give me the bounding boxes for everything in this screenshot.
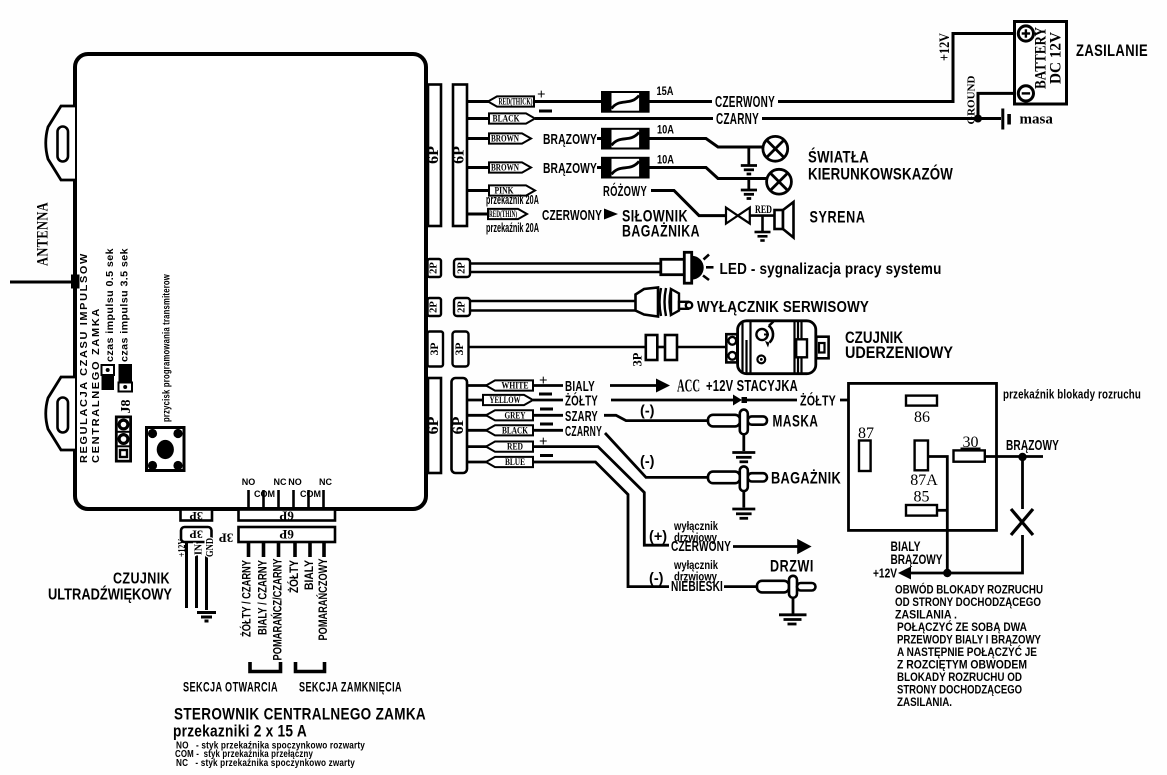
svg-text:LED - sygnalizacja pracy syste: LED - sygnalizacja pracy systemu bbox=[720, 261, 942, 278]
maska switch bbox=[708, 410, 767, 435]
lock wire 6 stub bbox=[322, 542, 326, 557]
svg-text:DRZWI: DRZWI bbox=[770, 557, 814, 576]
svg-text:CENTRALNEGO ZAMKA: CENTRALNEGO ZAMKA bbox=[90, 307, 102, 463]
bracket sekcja otwarcia bbox=[250, 662, 281, 672]
wire BLUE to niebieski bbox=[533, 462, 669, 587]
connector 2P row2 attached bbox=[428, 298, 442, 316]
antenna connector block bbox=[71, 275, 80, 289]
battery plus terminal bbox=[1018, 26, 1033, 41]
svg-text:BLACK: BLACK bbox=[493, 114, 520, 124]
mounting ear top bbox=[46, 106, 75, 180]
wire to CZARNY bbox=[535, 117, 713, 120]
svg-text:NC: NC bbox=[274, 477, 287, 487]
minus sign GREY bbox=[540, 408, 553, 411]
svg-text:przekaźnik 20A: przekaźnik 20A bbox=[486, 193, 539, 207]
ground siren bbox=[755, 216, 771, 241]
svg-text:SYRENA: SYRENA bbox=[810, 208, 866, 227]
relay box blokady bbox=[849, 383, 997, 530]
svg-text:MASKA: MASKA bbox=[773, 412, 819, 431]
fuse 10A-1 bbox=[602, 129, 649, 149]
wire X to +12V line bbox=[911, 535, 1023, 573]
svg-text:BRĄZOWY: BRĄZOWY bbox=[891, 552, 943, 567]
svg-text:ZASILANIE: ZASILANIE bbox=[1076, 42, 1148, 60]
flag BLUE bbox=[486, 457, 533, 467]
svg-text:6P: 6P bbox=[279, 509, 294, 524]
LED rays bbox=[703, 255, 714, 281]
wire to fuse 15A bbox=[534, 100, 602, 103]
svg-text:CZARNY: CZARNY bbox=[565, 423, 602, 440]
lock wire 5 stub bbox=[308, 542, 312, 557]
bracket sekcja zamkniecia bbox=[296, 662, 325, 672]
svg-text:BLACK: BLACK bbox=[502, 425, 528, 435]
svg-text:GREY: GREY bbox=[505, 410, 526, 420]
relay terminal 85 bbox=[906, 505, 937, 516]
svg-text:Z ROZCIĘTYM OBWODEM: Z ROZCIĘTYM OBWODEM bbox=[897, 660, 1027, 672]
svg-text:+12V: +12V bbox=[937, 33, 953, 61]
splice arrow bbox=[733, 395, 742, 406]
wire RED to czerwony bbox=[533, 447, 669, 546]
wire CZERWONY to battery bbox=[778, 34, 1019, 102]
svg-text:wyłącznik: wyłącznik bbox=[673, 521, 718, 533]
svg-text:6P: 6P bbox=[279, 527, 294, 542]
wire SZARY to maska switch bbox=[604, 415, 709, 420]
ultrasonic +12V wire bbox=[185, 542, 188, 608]
svg-text:87: 87 bbox=[858, 425, 874, 442]
svg-text:NIEBIESKI: NIEBIESKI bbox=[671, 578, 723, 595]
flag BROWN2 bbox=[489, 162, 531, 172]
svg-text:BIALY / CZARNY: BIALY / CZARNY bbox=[258, 560, 270, 635]
ground drzwi bbox=[779, 598, 807, 624]
minus sign YELLOW bbox=[539, 393, 552, 396]
LED holder bbox=[661, 259, 685, 274]
jumper block 2 (3.5 sek) bbox=[119, 364, 133, 392]
ultrasonic GND wire bbox=[205, 542, 208, 610]
svg-text:CZARNY: CZARNY bbox=[716, 111, 759, 128]
svg-text:STEROWNIK CENTRALNEGO ZAMKA: STEROWNIK CENTRALNEGO ZAMKA bbox=[174, 705, 426, 724]
svg-text:ŚWIATŁA: ŚWIATŁA bbox=[808, 148, 869, 167]
wire to fuse 10A-2 bbox=[597, 166, 602, 169]
fuse 15A bbox=[602, 92, 649, 112]
svg-text:DC 12V: DC 12V bbox=[1048, 32, 1065, 84]
connector 3P bottom plug bbox=[181, 527, 212, 542]
svg-text:ZASILANIA .: ZASILANIA . bbox=[895, 610, 957, 622]
lock wire 1 stub bbox=[247, 542, 251, 557]
svg-text:3P: 3P bbox=[630, 352, 644, 366]
flag WHITE bbox=[486, 380, 533, 390]
minus sign BLUE bbox=[540, 454, 553, 457]
wire BIALY to ACC bbox=[610, 384, 661, 387]
svg-text:czas impulsu 0.5 sek: czas impulsu 0.5 sek bbox=[105, 248, 116, 362]
svg-text:RED(THIN): RED(THIN) bbox=[489, 209, 517, 219]
lock wire 3 stub bbox=[277, 542, 281, 557]
connector 6P lower plug bbox=[452, 378, 468, 473]
mounting ear bottom slot bbox=[58, 398, 69, 433]
connector 6P top plug bbox=[453, 85, 467, 227]
wire to lamp 1 bbox=[649, 139, 763, 148]
wire to SZARY bbox=[533, 414, 563, 417]
wire to ZOLTY bbox=[533, 399, 563, 402]
connector 2P row2 plug bbox=[454, 298, 470, 316]
bagaznik switch bbox=[708, 466, 767, 491]
wire to shock sensor bbox=[677, 346, 726, 349]
inline connector block 1 bbox=[646, 335, 658, 360]
minus sign w2 bbox=[539, 110, 552, 113]
svg-text:SEKCJA ZAMKNIĘCIA: SEKCJA ZAMKNIĘCIA bbox=[299, 680, 402, 695]
svg-text:RÓŻOWY: RÓŻOWY bbox=[603, 182, 647, 200]
flag RED(THICK) bbox=[488, 96, 534, 106]
svg-text:REGULACJA CZASU IMPULSOW: REGULACJA CZASU IMPULSOW bbox=[78, 252, 90, 463]
svg-text:WYŁĄCZNIK SERWISOWY: WYŁĄCZNIK SERWISOWY bbox=[697, 299, 869, 316]
wire BLACK stub bbox=[467, 117, 490, 120]
mounting ear top slot bbox=[58, 127, 69, 162]
ultrasonic IN wire bbox=[195, 542, 198, 608]
junction dot +12V bbox=[943, 569, 951, 577]
svg-text:2P: 2P bbox=[429, 301, 440, 313]
svg-text:3P: 3P bbox=[429, 343, 441, 356]
relay pin tick NO2 bbox=[292, 490, 295, 509]
relay pin tick COM2 bbox=[307, 490, 310, 509]
lamp turn signal 2 bbox=[767, 169, 792, 194]
svg-text:czas impulsu 3.5 sek: czas impulsu 3.5 sek bbox=[120, 248, 131, 362]
splice square bbox=[742, 397, 748, 403]
speaker symbol bbox=[775, 202, 794, 238]
battery box bbox=[1015, 22, 1067, 105]
svg-text:CZUJNIK: CZUJNIK bbox=[113, 571, 170, 588]
svg-text:ACC: ACC bbox=[677, 376, 700, 396]
LED flange bbox=[684, 252, 691, 283]
svg-text:3P: 3P bbox=[219, 531, 234, 546]
svg-text:OD STRONY DOCHODZĄCEGO: OD STRONY DOCHODZĄCEGO bbox=[895, 597, 1041, 609]
wire to lamp 2 bbox=[649, 168, 767, 179]
flag BLACK2 bbox=[486, 425, 533, 435]
svg-text:ŻÓŁTY: ŻÓŁTY bbox=[800, 392, 836, 410]
svg-text:NC - styk przekaźnika spocz: NC - styk przekaźnika spoczynkowo zwarty bbox=[176, 757, 355, 769]
ground maska bbox=[732, 434, 755, 462]
svg-text:BROWN: BROWN bbox=[491, 134, 519, 144]
wire CZARNY to ground junction bbox=[762, 93, 1019, 118]
flag BROWN1 bbox=[489, 133, 531, 143]
svg-text:(-): (-) bbox=[649, 571, 664, 587]
svg-text:przekazniki 2 x 15 A: przekazniki 2 x 15 A bbox=[173, 723, 307, 741]
fuse 10A-2 bbox=[602, 158, 649, 178]
svg-text:POŁĄCZYĆ ZE SOBĄ DWA: POŁĄCZYĆ ZE SOBĄ DWA bbox=[897, 621, 1027, 634]
svg-text:BROWN: BROWN bbox=[491, 163, 519, 173]
antenna wire bbox=[10, 281, 72, 284]
svg-text:(-): (-) bbox=[640, 404, 655, 420]
cut mark X bbox=[1011, 509, 1033, 535]
siren valve bowtie bbox=[726, 208, 750, 224]
svg-text:RED(THICK): RED(THICK) bbox=[499, 97, 533, 107]
drzwi switch bbox=[757, 576, 816, 598]
wire down to X bbox=[1021, 457, 1024, 509]
svg-text:KIERUNKOWSKAZÓW: KIERUNKOWSKAZÓW bbox=[808, 165, 953, 184]
30 underline bbox=[961, 448, 981, 450]
LED cable bbox=[470, 264, 661, 273]
svg-text:85: 85 bbox=[914, 489, 930, 506]
programming push button bbox=[147, 428, 185, 471]
svg-text:6P: 6P bbox=[425, 146, 442, 164]
svg-text:87A: 87A bbox=[910, 472, 938, 489]
wire PINK stub bbox=[467, 189, 490, 192]
svg-text:(-): (-) bbox=[640, 454, 655, 470]
svg-text:NO: NO bbox=[288, 477, 302, 487]
lock wire 2 stub bbox=[262, 542, 266, 557]
svg-text:10A: 10A bbox=[657, 155, 674, 167]
svg-text:3P: 3P bbox=[454, 343, 466, 356]
wire CZARNY to bagaznik switch bbox=[605, 433, 709, 477]
wire ZOLTY to splice bbox=[611, 399, 734, 402]
wire 85 to down bbox=[937, 509, 947, 512]
svg-text:ŻÓŁTY / CZARNY: ŻÓŁTY / CZARNY bbox=[241, 560, 254, 637]
connector 3P row attached bbox=[428, 332, 444, 367]
svg-text:COM: COM bbox=[254, 489, 275, 499]
svg-text:wyłącznik: wyłącznik bbox=[673, 560, 718, 572]
connector 6P top attached bbox=[428, 85, 441, 227]
svg-text:A NASTĘPNIE POŁĄCZYĆ JE: A NASTĘPNIE POŁĄCZYĆ JE bbox=[897, 646, 1037, 659]
svg-text:2P: 2P bbox=[429, 262, 440, 274]
arrow to silownik bbox=[604, 209, 618, 220]
svg-text:BIALY: BIALY bbox=[304, 560, 316, 590]
svg-text:YELLOW: YELLOW bbox=[490, 395, 521, 405]
svg-text:J8: J8 bbox=[119, 400, 134, 414]
wire RED(THICK) stub bbox=[467, 100, 489, 103]
relay terminal 86 bbox=[906, 396, 937, 406]
minus sign BLACK2 bbox=[540, 423, 553, 426]
wire czerwony to arrow bbox=[733, 545, 799, 548]
wire WHITE stub bbox=[467, 384, 487, 387]
svg-text:CZERWONY: CZERWONY bbox=[671, 538, 731, 555]
CZUJNIK UDERZENIOWY label bbox=[845, 329, 953, 362]
LED dome bbox=[692, 256, 704, 280]
svg-text:przycisk programowania trans: przycisk programowania transmiterow bbox=[162, 274, 173, 422]
service switch cable bbox=[470, 301, 636, 311]
svg-text:BAGAŻNIKA: BAGAŻNIKA bbox=[622, 222, 700, 241]
relay terminal 87A bbox=[915, 441, 928, 471]
svg-text:UDERZENIOWY: UDERZENIOWY bbox=[845, 344, 953, 362]
flag YELLOW bbox=[483, 395, 533, 405]
svg-text:2P: 2P bbox=[456, 262, 467, 274]
svg-text:przekaźnik 20A: przekaźnik 20A bbox=[486, 221, 539, 235]
relay pin tick COM bbox=[262, 490, 265, 509]
svg-text:WHITE: WHITE bbox=[502, 381, 529, 391]
flag BLACK bbox=[489, 113, 535, 123]
svg-text:6P: 6P bbox=[425, 416, 442, 434]
flag GREY bbox=[486, 410, 533, 420]
wire to fuse 10A-1 bbox=[597, 137, 602, 140]
lamp turn signal 1 bbox=[763, 136, 788, 161]
inline connector link bbox=[657, 346, 665, 349]
relay terminal 30 bbox=[954, 450, 985, 461]
svg-text:BRĄZOWY: BRĄZOWY bbox=[543, 160, 597, 177]
wire niebieski to drzwi switch bbox=[724, 585, 758, 588]
svg-text:(+): (+) bbox=[649, 529, 667, 545]
wire RED2 stub bbox=[467, 445, 487, 448]
shock sensor wire bbox=[469, 346, 647, 349]
svg-text:BAGAŻNIK: BAGAŻNIK bbox=[771, 469, 841, 488]
junction dot brazowy bbox=[1018, 453, 1026, 461]
flag RED2 bbox=[486, 442, 533, 452]
connector 6P lower attached bbox=[428, 378, 441, 473]
obwod blokady text block 1 bbox=[895, 584, 1043, 622]
svg-text:ANTENNA: ANTENNA bbox=[35, 202, 52, 266]
svg-text:2P: 2P bbox=[456, 301, 467, 313]
connector 2P row1 attached bbox=[428, 259, 442, 277]
ground lamp 2 bbox=[741, 179, 757, 199]
wire to masa bbox=[978, 117, 1001, 120]
arrow +12V bbox=[898, 567, 911, 580]
CZUJNIK ULTRADZWIEKOWY label bbox=[48, 571, 172, 604]
jumper block 1 (0.5 sek) bbox=[102, 365, 115, 390]
svg-text:przekaźnik blokady rozruchu: przekaźnik blokady rozruchu bbox=[1003, 388, 1141, 402]
wire BLACK2 stub bbox=[467, 429, 487, 432]
wire bowtie to speaker bbox=[750, 214, 775, 217]
masa chassis symbol bbox=[1001, 109, 1011, 130]
svg-text:6P: 6P bbox=[450, 416, 467, 434]
inline connector block 2 bbox=[665, 335, 677, 360]
wire BLUE stub bbox=[467, 461, 487, 464]
wire YELLOW stub bbox=[467, 399, 484, 402]
svg-text:ŻÓŁTY: ŻÓŁTY bbox=[288, 560, 301, 593]
svg-text:SEKCJA OTWARCIA: SEKCJA OTWARCIA bbox=[183, 680, 278, 695]
pin header J8 bbox=[115, 416, 132, 463]
svg-text:10A: 10A bbox=[657, 125, 674, 137]
svg-text:3P: 3P bbox=[190, 528, 203, 542]
battery minus terminal bbox=[1018, 86, 1033, 101]
svg-text:RED: RED bbox=[755, 204, 772, 216]
svg-text:CZERWONY: CZERWONY bbox=[542, 207, 602, 224]
junction dot masa bbox=[974, 115, 982, 123]
connector 3P row plug bbox=[453, 332, 469, 367]
wire BROWN1 stub bbox=[467, 137, 490, 140]
svg-text:POMARAŃCZOWY: POMARAŃCZOWY bbox=[317, 558, 330, 640]
connector 6P bottom plug bbox=[239, 527, 336, 542]
svg-text:3P: 3P bbox=[190, 509, 203, 523]
connector 3P bottom attached bbox=[181, 510, 213, 521]
svg-text:6P: 6P bbox=[451, 146, 468, 164]
svg-text:ZASILANIA.: ZASILANIA. bbox=[897, 697, 952, 709]
svg-text:RED: RED bbox=[507, 442, 523, 452]
flag RED(THIN) bbox=[488, 209, 527, 219]
ground bagaznik bbox=[732, 491, 755, 518]
svg-text:COM: COM bbox=[300, 489, 321, 499]
svg-text:BRĄZOWY: BRĄZOWY bbox=[543, 131, 597, 148]
svg-text:NC: NC bbox=[319, 477, 332, 487]
svg-text:OBWÓD BLOKADY ROZRUCHU: OBWÓD BLOKADY ROZRUCHU bbox=[895, 584, 1043, 597]
svg-text:86: 86 bbox=[914, 409, 930, 426]
wire BROWN2 stub bbox=[467, 166, 490, 169]
svg-text:15A: 15A bbox=[657, 86, 674, 98]
svg-text:ULTRADŹWIĘKOWY: ULTRADŹWIĘKOWY bbox=[48, 585, 172, 604]
relay pin tick NC2 bbox=[322, 490, 325, 509]
connector 2P row1 plug bbox=[454, 259, 470, 277]
svg-text:NO: NO bbox=[242, 477, 256, 487]
relay terminal 87 bbox=[859, 441, 871, 472]
svg-text:IN: IN bbox=[193, 543, 204, 555]
svg-text:BRĄZOWY: BRĄZOWY bbox=[1006, 437, 1059, 454]
svg-text:GND: GND bbox=[205, 538, 216, 557]
arrow czerwony bbox=[797, 539, 811, 554]
ground lamp 1 bbox=[741, 147, 757, 174]
svg-text:masa: masa bbox=[1020, 112, 1054, 128]
main control unit box bbox=[75, 54, 426, 509]
svg-text:BLUE: BLUE bbox=[505, 457, 525, 467]
svg-text:+12V: +12V bbox=[177, 538, 188, 557]
wire to CZARNY2 bbox=[533, 429, 563, 432]
arrow ACC bbox=[656, 379, 670, 393]
shock sensor body bbox=[726, 321, 828, 374]
svg-text:+12V: +12V bbox=[873, 566, 897, 581]
wire ZOLTY2 to relay 86 bbox=[840, 399, 906, 402]
svg-text:STRONY DOCHODZĄCEGO: STRONY DOCHODZĄCEGO bbox=[897, 685, 1022, 697]
wire to BIALY bbox=[533, 384, 563, 387]
mounting ear bottom bbox=[46, 377, 75, 450]
svg-text:BLOKADY ROZRUCHU OD: BLOKADY ROZRUCHU OD bbox=[897, 672, 1022, 684]
wire RED(THIN) stub bbox=[467, 213, 489, 216]
wire splice to ZOLTY2 bbox=[747, 399, 797, 402]
wire ROZOWY to siren bbox=[651, 191, 726, 216]
lock wire 4 stub bbox=[293, 542, 297, 557]
wire 87A to down bbox=[928, 457, 947, 574]
svg-text:ŻÓŁTY: ŻÓŁTY bbox=[565, 392, 598, 410]
svg-text:+12V STACYJKA: +12V STACYJKA bbox=[706, 378, 798, 395]
service switch RCA plug bbox=[636, 288, 693, 317]
svg-text:PRZEWODY BIALY I BRĄZOWY: PRZEWODY BIALY I BRĄZOWY bbox=[897, 635, 1041, 647]
polaczyc text block 2 bbox=[897, 621, 1041, 709]
relay pin tick NC bbox=[277, 490, 280, 509]
flag PINK bbox=[489, 185, 535, 195]
wire 30 out bbox=[985, 455, 1043, 458]
relay pin tick NO bbox=[247, 490, 250, 509]
wire to CZERWONY bbox=[649, 100, 712, 103]
svg-text:POMARAŃCZ/CZARNY: POMARAŃCZ/CZARNY bbox=[272, 558, 285, 660]
svg-text:CZERWONY: CZERWONY bbox=[715, 94, 775, 111]
ground (ultrasonic) bbox=[197, 613, 216, 622]
connector 6P bottom attached bbox=[239, 510, 336, 521]
wire GREY stub bbox=[467, 414, 487, 417]
